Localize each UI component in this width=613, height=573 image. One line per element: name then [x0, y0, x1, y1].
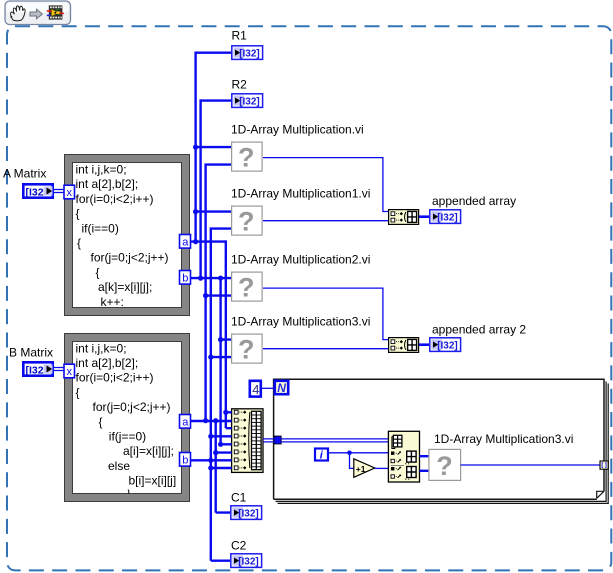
svg-text:{: { [96, 265, 100, 279]
svg-text:C1: C1 [231, 491, 247, 505]
wire 4 to N [261, 387, 274, 389]
svg-text:if(j==0): if(j==0) [109, 430, 146, 444]
iteration terminal i [315, 449, 328, 462]
subVI U1 [232, 142, 263, 172]
indicator C2 [231, 554, 262, 568]
wire U1 input1 [196, 146, 231, 148]
constant 4 [250, 381, 261, 397]
svg-text:k++:: k++: [101, 295, 124, 309]
svg-text:1D-Array Multiplication.vi: 1D-Array Multiplication.vi [231, 123, 364, 137]
svg-text:int i,j,k=0;: int i,j,k=0; [76, 341, 127, 355]
indicator R2 [232, 94, 263, 108]
for loop frame sheet2 [276, 382, 607, 502]
svg-text:for(i=0;i<2;i++): for(i=0;i<2;i++) [76, 192, 154, 206]
control B Matrix [I32] [23, 362, 52, 376]
wire R1 stub [196, 52, 231, 54]
toolbar arrow icon [30, 9, 42, 19]
svg-text:for(j=0;j<2;j++): for(j=0;j<2;j++) [91, 251, 169, 265]
subVI U5 [429, 449, 461, 480]
wire U2 input1 [196, 210, 231, 212]
wire B.a drop to C1 [216, 421, 232, 513]
svg-text:1D-Array Multiplication1.vi: 1D-Array Multiplication1.vi [231, 187, 370, 201]
svg-text:b: b [182, 454, 188, 466]
toolbar hand tool icon [11, 6, 26, 21]
svg-text:for(j=0;j<2;j++): for(j=0;j<2;j++) [93, 400, 171, 414]
svg-text:{: { [76, 207, 80, 221]
svg-text:b: b [182, 272, 188, 284]
wire i to index array [329, 452, 388, 454]
wire BA1 to appended array [419, 215, 429, 218]
svg-text:else: else [108, 459, 130, 473]
loop count terminal N [275, 381, 288, 395]
svg-text:int i,j,k=0;: int i,j,k=0; [76, 163, 127, 177]
toolbar palette box [5, 1, 71, 25]
terminal a on node B [180, 415, 191, 429]
terminal b on node B [180, 453, 191, 467]
wire i branch to +1 [350, 453, 354, 469]
svg-text:for(i=0;i<2;i++): for(i=0;i<2;i++) [76, 371, 154, 385]
indicator appended array [430, 210, 461, 224]
svg-text:a[k]=x[i][j];: a[k]=x[i][j]; [98, 280, 152, 294]
index array node [388, 431, 419, 482]
svg-text:1D-Array Multiplication2.vi: 1D-Array Multiplication2.vi [231, 253, 370, 267]
svg-text:a: a [182, 236, 189, 248]
svg-text:x: x [67, 187, 73, 199]
wire B.b riser [211, 227, 232, 560]
svg-text:B Matrix: B Matrix [9, 346, 53, 360]
indicator C1 [231, 506, 262, 520]
svg-text:C2: C2 [231, 539, 247, 553]
wire 2D: B control to x [54, 368, 64, 371]
subVI U2 [232, 206, 263, 236]
svg-text:{: { [77, 236, 81, 250]
subVI U4 [232, 334, 263, 364]
subVI U3 [232, 272, 263, 302]
wire B.b output horizontal [191, 459, 232, 461]
wire U4 output to BA2 [263, 348, 388, 350]
svg-text:+1: +1 [356, 464, 366, 474]
terminal a on node A [180, 235, 191, 249]
build array tall node BA3 [232, 409, 263, 473]
for loop frame sheet3 [278, 384, 609, 504]
wire R2 stub [201, 99, 231, 101]
svg-text:[I32: [I32 [26, 364, 44, 376]
toolbar filmstrip icon [47, 5, 64, 19]
wire +1 to index array [375, 467, 388, 469]
formula node B code [76, 341, 177, 493]
junction dots [193, 145, 228, 471]
svg-text:{: { [76, 385, 80, 399]
wires index array outputs to subVI U5 [420, 455, 429, 457]
wire 2D: build array to tunnel [263, 439, 274, 442]
increment node +1 [354, 459, 375, 478]
control A Matrix [I32] [23, 184, 52, 198]
junction dot i branch [347, 451, 352, 456]
svg-text:a[i]=x[i][j];: a[i]=x[i][j]; [123, 444, 174, 458]
formula node B frame [65, 334, 190, 502]
build array node BA2 [389, 338, 419, 353]
formula node A code [76, 163, 169, 309]
indicator appended array 2 [430, 338, 461, 352]
wire A.b horizontal to U3 [191, 277, 232, 279]
for loop main frame [274, 379, 604, 499]
svg-text:R2: R2 [232, 78, 248, 92]
wire U1 output to BA1 [263, 158, 388, 212]
wire A.a drop to build array [226, 240, 232, 428]
svg-text:int a[2],b[2];: int a[2],b[2]; [76, 177, 139, 191]
loop output tunnel [600, 461, 608, 469]
for loop page curl [597, 491, 604, 498]
svg-text:{: { [99, 415, 103, 429]
wire A.a horizontal [191, 240, 226, 242]
wire U5 output to tunnel [461, 464, 600, 466]
terminal x on node B [64, 364, 75, 378]
wire A.b branch drop [221, 278, 232, 444]
svg-text:x: x [67, 366, 73, 378]
svg-text:1D-Array Multiplication3.vi: 1D-Array Multiplication3.vi [434, 432, 573, 446]
svg-text:N: N [277, 381, 286, 395]
build array node BA1 [389, 210, 419, 225]
terminal b on node A [180, 271, 191, 285]
formula node A frame [65, 155, 190, 316]
svg-text:4: 4 [252, 382, 259, 397]
svg-text:b[i]=x[i][j]: b[i]=x[i][j] [129, 474, 177, 488]
svg-text:A Matrix: A Matrix [3, 167, 46, 181]
wire B.a node A output [191, 420, 232, 422]
loop input tunnel [274, 436, 281, 444]
svg-text:1D-Array Multiplication3.vi: 1D-Array Multiplication3.vi [231, 315, 370, 329]
svg-text:appended array 2: appended array 2 [432, 323, 526, 337]
wire BA2 to appended array 2 [419, 343, 429, 346]
svg-text:int a[2],b[2];: int a[2],b[2]; [76, 356, 139, 370]
wire 2D: tunnel to index array [281, 439, 388, 442]
wire A.b vertical riser [199, 99, 201, 278]
wire A.a vertical riser [194, 52, 196, 242]
wire U3 output to BA2 [263, 288, 388, 340]
wire U2 output to BA1 [263, 220, 388, 222]
svg-text:?: ? [436, 451, 453, 481]
wire 2D: A control to x [54, 190, 64, 193]
wire B.a riser [206, 163, 231, 420]
svg-text:appended array: appended array [432, 194, 516, 208]
indicator R1 [232, 46, 263, 60]
svg-text:if(i==0): if(i==0) [82, 221, 119, 235]
terminal x on node A [64, 185, 75, 199]
svg-text:a: a [182, 416, 189, 428]
svg-text:[I32: [I32 [26, 186, 44, 198]
svg-text:R1: R1 [232, 29, 248, 43]
